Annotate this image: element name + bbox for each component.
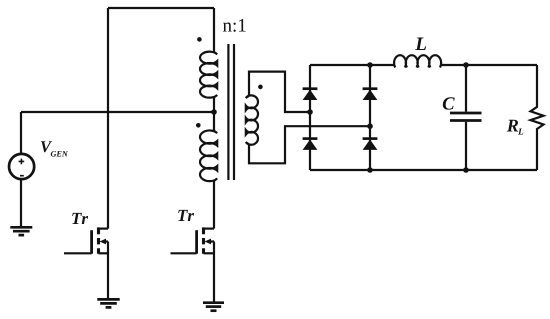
junction: center tap — [211, 109, 217, 115]
transistor Q1 (Tr) — [64, 227, 108, 299]
junction: bottom rail right branch — [367, 167, 373, 173]
diode D1 (upper left) — [303, 89, 318, 100]
node dot: secondary polarity — [258, 85, 263, 90]
voltage source VGEN — [9, 112, 34, 227]
bridge bottom rail — [310, 169, 537, 171]
label VGEN — [41, 141, 68, 156]
diode D4 (lower right) — [363, 139, 378, 150]
node dot: primary lower polarity — [196, 123, 201, 128]
junction: top rail right branch — [367, 62, 373, 68]
diode D2 (lower left) — [303, 139, 318, 150]
label C — [443, 97, 455, 109]
junction: cap bottom — [463, 167, 469, 173]
wire left vertical (T1 drain to top rail) — [107, 8, 109, 229]
transformer primary lower winding — [200, 130, 217, 181]
capacitor C — [450, 65, 482, 170]
label RL — [507, 120, 524, 135]
bridge top rail — [310, 64, 537, 66]
label Tr (Q1) — [72, 213, 88, 224]
junction: cap top — [463, 62, 469, 68]
transformer primary upper winding — [213, 8, 215, 52]
bridge right branch wire — [369, 65, 371, 170]
ground (below Q2) — [203, 303, 224, 311]
wire VGEN to center tap — [21, 111, 214, 113]
diode D3 (upper right) — [363, 89, 378, 100]
label L — [415, 38, 426, 50]
label Tr (Q2) — [178, 210, 194, 221]
transformer secondary winding — [249, 72, 310, 112]
transistor Q2 (Tr) — [171, 227, 215, 302]
junction: left branch mid — [307, 109, 313, 115]
ground (below Q1) — [97, 299, 119, 307]
resistor RL — [531, 65, 544, 170]
transformer core — [228, 44, 234, 180]
label n:1 — [223, 19, 246, 32]
junction: right branch mid — [367, 123, 373, 129]
node dot: primary upper polarity — [197, 37, 202, 42]
ground (below VGEN) — [10, 227, 32, 235]
wire top rail — [108, 7, 214, 9]
bridge left branch wire — [309, 65, 311, 170]
inductor L — [394, 55, 441, 67]
